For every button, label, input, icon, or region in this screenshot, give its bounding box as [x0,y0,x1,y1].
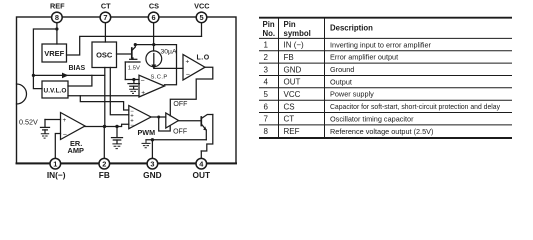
ground for C2 [129,89,138,93]
svg-text:symbol: symbol [284,29,311,38]
wire lower OFF loop [159,117,171,131]
svg-text:30µA: 30µA [161,49,177,56]
buffer triangle [166,113,179,128]
wire pin3 riser [151,140,153,159]
box UVLO [42,81,68,98]
wire SCP minus input [125,79,139,81]
svg-text:Pin: Pin [284,20,296,29]
wire L.O output chain [170,67,213,116]
svg-text:GND: GND [284,65,302,74]
op-amp ER AMP triangle [61,113,86,140]
package notch (left edge) [17,84,27,104]
svg-text:1: 1 [264,41,269,50]
current source arrow [153,54,155,67]
arrowhead current source [151,65,156,70]
wire pin2 riser [103,127,105,159]
wire buffer to Q2 base [179,120,201,122]
wire OSC second output to PWM [110,68,129,115]
svg-text:−: − [63,131,67,138]
svg-text:PWM: PWM [138,128,156,137]
wire current source to L.O input [154,67,183,69]
svg-text:Power supply: Power supply [330,90,374,99]
svg-text:5: 5 [199,13,203,22]
svg-text:7: 7 [264,115,269,124]
svg-text:2: 2 [102,159,106,168]
box OSC [92,42,117,68]
box VREF [42,44,67,62]
comparator SCP triangle [139,75,165,97]
svg-text:8: 8 [55,13,59,22]
svg-text:BIAS: BIAS [69,65,86,72]
table header separator [259,37,512,39]
wire Q1 base lead [117,53,131,55]
table row lines [259,50,512,52]
ground for battery [41,134,49,138]
pin 5 VCC [196,12,207,23]
pin 3 GND [147,158,158,169]
svg-text:2: 2 [264,53,269,62]
svg-text:3: 3 [264,65,269,74]
wire sub-rail [135,45,176,85]
svg-text:CT: CT [101,2,111,11]
svg-text:REF: REF [50,2,65,11]
svg-text:0.52V: 0.52V [19,117,38,126]
svg-text:No.: No. [263,29,276,38]
svg-text:VCC: VCC [194,2,210,11]
pin 2 FB [99,158,110,169]
svg-text:L.O: L.O [197,54,210,61]
svg-text:CT: CT [284,115,295,124]
svg-text:FB: FB [99,170,110,180]
wire ground bus [146,139,206,141]
ground near pin3 [142,140,151,148]
op-amp LO triangle [183,55,205,81]
wire 0.52V to ER plus [45,119,61,121]
svg-text:OSC: OSC [96,51,113,60]
wire VREF to VCC rail [67,36,202,55]
wire pin8 riser [56,23,58,44]
svg-text:OUT: OUT [193,170,211,180]
svg-text:U.V.L.O: U.V.L.O [44,87,67,94]
svg-text:CS: CS [284,102,295,111]
svg-text:Reference voltage output (2.5V: Reference voltage output (2.5V) [330,127,433,136]
svg-text:6: 6 [264,102,269,111]
table column separators [278,17,280,139]
svg-text:Oscillator timing capacitor: Oscillator timing capacitor [330,114,414,123]
svg-text:Description: Description [330,24,373,33]
battery 0.52V reference [44,120,46,127]
svg-text:+: + [63,117,67,124]
svg-text:6: 6 [152,13,156,22]
wire pin7 riser to OSC [104,23,106,42]
svg-text:OUT: OUT [284,78,301,87]
comparator PWM triangle [129,106,151,129]
wire pin1 riser to ER minus [55,134,60,159]
wire Q2 emitter down [205,130,207,140]
svg-text:CS: CS [149,2,159,11]
svg-text:−: − [186,72,190,79]
svg-text:−: − [141,77,145,84]
svg-text:S.C.P: S.C.P [151,75,168,81]
wire UVLO bottom to PWM [80,96,129,110]
svg-text:+: + [141,89,145,96]
wire UVLO right output [68,75,139,95]
wire OSC sawtooth down [104,68,106,127]
svg-text:Error amplifier output: Error amplifier output [330,53,398,62]
ground for C1 [112,144,121,149]
svg-text:5: 5 [264,90,269,99]
svg-text:AMP: AMP [68,146,84,155]
current source circle 30uA [146,51,162,67]
table top border [259,17,512,19]
svg-text:8: 8 [264,127,269,136]
wire pin4 riser [200,151,202,159]
wire Q2 collector to pin4 [201,115,213,152]
capacitor C1 (FB comp) [116,127,118,138]
svg-text:REF: REF [284,127,300,136]
bottom edge emphasis [17,162,237,164]
svg-text:Capacitor for soft-start, shor: Capacitor for soft-start, short-circuit … [330,102,500,111]
svg-text:−: − [130,123,134,129]
svg-text:7: 7 [103,13,107,22]
svg-text:OFF: OFF [173,129,187,136]
arrowhead on bias feed wire [62,73,69,79]
wire pin5 riser [201,23,203,37]
svg-text:IN(−): IN(−) [47,170,66,180]
svg-text:FB: FB [284,53,294,62]
wire node A to left rail [33,29,57,89]
svg-text:Ground: Ground [330,65,354,74]
svg-text:OFF: OFF [173,101,187,108]
svg-text:VREF: VREF [44,49,64,58]
wire ER amp output to PWM [85,124,129,126]
pin 7 CT [100,12,111,23]
pin 8 REF [52,12,63,23]
pin 6 CS [148,12,159,23]
svg-text:Pin: Pin [263,20,275,29]
arrowhead Q2 emitter [203,126,206,130]
svg-text:VCC: VCC [284,90,301,99]
wire arrow feed to OSC line [33,74,104,76]
table bottom border [259,137,512,139]
junction dots [55,27,58,30]
transistor Q1 (1.5V clamp) [131,48,133,58]
wire pin6 riser to current source [153,23,155,51]
transistor Q2 (output) [200,117,202,126]
svg-text:1.5V: 1.5V [128,65,140,71]
svg-text:+: + [186,58,190,65]
svg-text:GND: GND [143,170,161,180]
svg-text:IN (−): IN (−) [284,41,305,50]
capacitor C2 (SCP) [133,80,135,84]
svg-text:3: 3 [150,159,154,168]
svg-text:4: 4 [264,78,269,87]
svg-text:1: 1 [53,159,57,168]
wire PWM out to buffer [151,116,166,118]
svg-text:Inverting input to error ampli: Inverting input to error amplifier [330,40,432,49]
pin 4 OUT [196,158,207,169]
svg-text:Output: Output [330,77,352,86]
IC package outline [17,17,237,164]
pin 1 IN- [50,158,61,169]
